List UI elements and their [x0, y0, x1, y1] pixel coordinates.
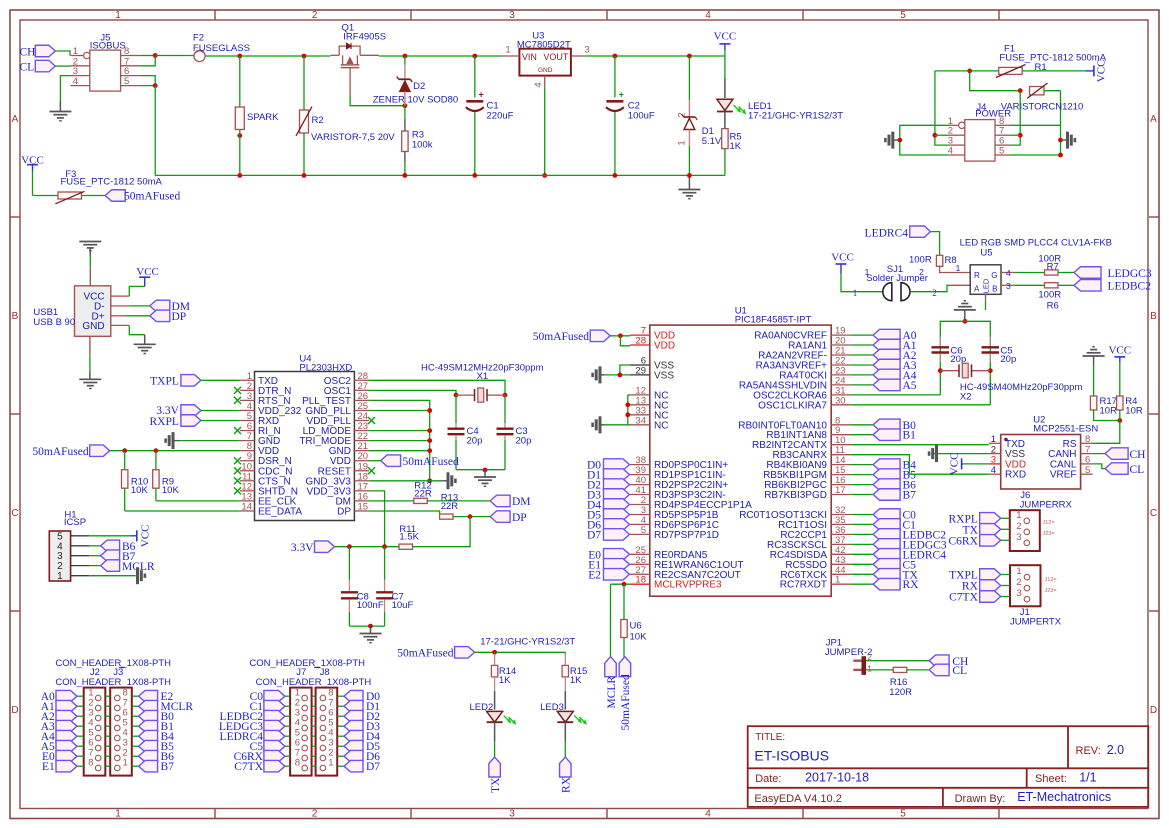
svg-text:1: 1 [956, 263, 961, 273]
svg-text:1: 1 [1016, 510, 1021, 521]
svg-text:R7: R7 [1047, 261, 1059, 272]
svg-text:1: 1 [115, 10, 121, 21]
svg-text:PL2303HXD: PL2303HXD [299, 362, 352, 373]
svg-text:JUMPERRX: JUMPERRX [1020, 500, 1073, 511]
svg-text:2: 2 [1016, 577, 1021, 588]
svg-text:1: 1 [505, 45, 510, 56]
svg-text:VDD: VDD [654, 341, 675, 352]
svg-text:GND: GND [82, 321, 104, 332]
svg-text:14: 14 [241, 501, 252, 512]
svg-text:F2: F2 [193, 32, 204, 43]
svg-text:5: 5 [999, 146, 1004, 157]
svg-text:J23=: J23= [1045, 588, 1057, 594]
svg-text:8: 8 [295, 758, 300, 769]
svg-text:10uF: 10uF [392, 600, 414, 611]
svg-text:GND: GND [538, 67, 553, 74]
svg-text:VCC: VCC [1096, 60, 1108, 83]
svg-text:100R: 100R [909, 255, 932, 266]
svg-text:J12=: J12= [1043, 520, 1055, 526]
svg-text:MCLR: MCLR [606, 676, 618, 709]
svg-text:B: B [992, 285, 997, 294]
svg-text:J23=: J23= [1043, 531, 1055, 537]
svg-text:3: 3 [1016, 532, 1021, 543]
svg-text:D: D [11, 705, 18, 716]
svg-text:VOUT: VOUT [543, 52, 569, 62]
svg-text:R: R [974, 271, 980, 280]
svg-text:30: 30 [835, 395, 846, 406]
svg-text:U5: U5 [980, 248, 992, 259]
svg-text:22R: 22R [441, 501, 459, 512]
svg-text:1: 1 [328, 758, 333, 769]
svg-text:CH: CH [1130, 449, 1146, 461]
svg-text:RX: RX [561, 776, 573, 793]
svg-text:OSC1CLKIRA7: OSC1CLKIRA7 [758, 400, 827, 411]
svg-text:Date:: Date: [755, 773, 781, 785]
svg-text:34: 34 [635, 415, 646, 426]
svg-text:4: 4 [1006, 268, 1011, 278]
svg-text:IRF4905S: IRF4905S [343, 32, 386, 43]
svg-text:D2: D2 [413, 81, 425, 92]
svg-text:SPARK: SPARK [247, 112, 279, 123]
svg-text:MCLRVPPRE3: MCLRVPPRE3 [654, 580, 722, 591]
svg-text:1K: 1K [730, 141, 742, 152]
svg-text:RX: RX [903, 579, 920, 591]
svg-text:ET-Mechatronics: ET-Mechatronics [1017, 790, 1111, 804]
svg-text:5: 5 [1085, 465, 1090, 476]
svg-text:LEDGC3: LEDGC3 [1108, 268, 1152, 280]
svg-text:28: 28 [635, 336, 646, 347]
svg-text:DP: DP [337, 506, 351, 517]
svg-text:C7TX: C7TX [949, 592, 978, 604]
svg-text:5: 5 [641, 525, 646, 536]
svg-text:RXPL: RXPL [149, 416, 178, 428]
svg-text:D: D [1150, 705, 1157, 716]
svg-text:USB B 90: USB B 90 [33, 317, 75, 328]
svg-text:LEDRC4: LEDRC4 [865, 228, 909, 240]
svg-text:50mAFused: 50mAFused [124, 191, 180, 203]
svg-text:X2: X2 [960, 392, 972, 403]
svg-text:10K: 10K [131, 485, 149, 496]
svg-text:CH: CH [20, 46, 36, 58]
svg-text:2: 2 [919, 267, 924, 277]
svg-text:17: 17 [835, 485, 846, 496]
svg-text:3.3V: 3.3V [291, 542, 314, 554]
svg-text:1: 1 [853, 288, 858, 298]
svg-text:FUSEGLASS: FUSEGLASS [193, 43, 250, 54]
svg-text:HC-49SM40MHz20pF30ppm: HC-49SM40MHz20pF30ppm [960, 382, 1083, 393]
svg-text:B: B [1150, 311, 1157, 322]
svg-text:2: 2 [1016, 521, 1021, 532]
svg-text:E2: E2 [588, 569, 601, 581]
svg-text:JUMPERTX: JUMPERTX [1010, 617, 1062, 628]
svg-text:VARISTOR-7,5 20V: VARISTOR-7,5 20V [311, 132, 395, 143]
svg-text:3: 3 [509, 10, 515, 21]
svg-text:1K: 1K [570, 675, 582, 686]
svg-text:CON_HEADER_1X08-PTH: CON_HEADER_1X08-PTH [249, 658, 365, 669]
svg-text:DM: DM [512, 496, 531, 508]
svg-text:VSS: VSS [654, 370, 674, 381]
svg-text:1/1: 1/1 [1079, 770, 1096, 784]
svg-text:REV:: REV: [1076, 745, 1101, 757]
svg-text:10K: 10K [162, 485, 180, 496]
svg-text:EasyEDA V4.10.2: EasyEDA V4.10.2 [754, 793, 841, 805]
svg-text:DP: DP [512, 512, 527, 524]
svg-text:TXPL: TXPL [150, 376, 179, 388]
svg-text:CON_HEADER_1X08-PTH: CON_HEADER_1X08-PTH [256, 677, 372, 688]
svg-text:CL: CL [20, 62, 35, 74]
svg-text:RD7PSP7P1D: RD7PSP7P1D [654, 530, 719, 541]
svg-text:NC: NC [654, 420, 668, 431]
svg-text:4: 4 [705, 809, 711, 820]
svg-text:TITLE:: TITLE: [755, 732, 785, 743]
svg-text:2: 2 [932, 288, 937, 298]
svg-text:B7: B7 [903, 490, 917, 502]
svg-text:4: 4 [991, 465, 996, 476]
svg-text:20p: 20p [467, 436, 483, 447]
svg-text:B7: B7 [161, 761, 175, 773]
svg-text:100nF: 100nF [357, 600, 384, 611]
svg-text:5: 5 [124, 76, 129, 87]
svg-text:A: A [12, 114, 19, 125]
svg-text:C6RX: C6RX [948, 535, 978, 547]
svg-text:VCC: VCC [949, 453, 961, 476]
svg-text:20p: 20p [1000, 354, 1016, 365]
svg-text:+: + [479, 90, 484, 100]
svg-text:1: 1 [1016, 566, 1021, 577]
svg-text:B: B [12, 311, 19, 322]
svg-text:D7: D7 [366, 761, 380, 773]
svg-text:RXD: RXD [1005, 470, 1026, 481]
svg-text:29: 29 [635, 365, 646, 376]
svg-text:VREF: VREF [1050, 470, 1077, 481]
svg-text:D7: D7 [587, 529, 601, 541]
svg-text:A: A [974, 285, 980, 294]
svg-text:R1: R1 [1035, 62, 1047, 73]
svg-text:DP: DP [172, 311, 187, 323]
svg-text:1: 1 [123, 758, 128, 769]
svg-text:VCC: VCC [714, 31, 737, 43]
svg-text:5: 5 [900, 10, 906, 21]
svg-text:CL: CL [952, 665, 967, 677]
svg-text:CL: CL [1130, 464, 1145, 476]
svg-text:1: 1 [676, 140, 687, 145]
svg-text:10R: 10R [1100, 405, 1118, 416]
svg-text:120R: 120R [889, 687, 912, 698]
svg-text:C7TX: C7TX [234, 761, 263, 773]
svg-text:100R: 100R [1038, 290, 1061, 301]
svg-text:J12=: J12= [1045, 577, 1057, 583]
svg-text:2: 2 [312, 809, 318, 820]
svg-text:18: 18 [635, 575, 646, 586]
svg-text:VIN: VIN [522, 52, 537, 62]
svg-text:Sheet:: Sheet: [1035, 773, 1067, 785]
svg-text:RB7KBI3PGD: RB7KBI3PGD [764, 490, 827, 501]
svg-text:Drawn By:: Drawn By: [955, 793, 1006, 805]
svg-text:ICSP: ICSP [64, 517, 86, 528]
svg-text:A5: A5 [903, 380, 917, 392]
svg-text:EE_DATA: EE_DATA [258, 506, 302, 517]
svg-text:2017-10-18: 2017-10-18 [805, 770, 869, 784]
svg-text:MCP2551-ESN: MCP2551-ESN [1033, 424, 1098, 435]
svg-text:10R: 10R [1125, 405, 1143, 416]
svg-text:FUSE_PTC-1812 500mA: FUSE_PTC-1812 500mA [999, 52, 1106, 63]
svg-text:VCC: VCC [140, 524, 152, 547]
svg-text:E1: E1 [42, 761, 55, 773]
svg-text:22R: 22R [414, 488, 432, 499]
svg-text:R2: R2 [312, 115, 324, 126]
svg-text:X1: X1 [477, 371, 489, 382]
svg-text:100uF: 100uF [628, 110, 655, 121]
svg-text:20p: 20p [516, 436, 532, 447]
svg-text:4: 4 [705, 10, 711, 21]
svg-text:3: 3 [509, 809, 515, 820]
svg-text:100k: 100k [412, 139, 433, 150]
svg-text:MC7805D2T: MC7805D2T [517, 40, 571, 51]
svg-text:C: C [11, 508, 18, 519]
svg-text:1.5K: 1.5K [399, 532, 419, 543]
svg-text:50mAFused: 50mAFused [403, 456, 459, 468]
svg-text:LED3: LED3 [540, 702, 564, 713]
svg-text:LEDBC2: LEDBC2 [1108, 281, 1152, 293]
svg-text:8: 8 [88, 758, 93, 769]
svg-text:1: 1 [835, 575, 840, 586]
svg-text:CON_HEADER_1X08-PTH: CON_HEADER_1X08-PTH [55, 677, 171, 688]
svg-text:17-21/GHC-YR1S2/3T: 17-21/GHC-YR1S2/3T [480, 637, 575, 648]
svg-text:1: 1 [57, 571, 63, 582]
svg-text:RC7RXDT: RC7RXDT [780, 580, 827, 591]
svg-text:ET-ISOBUS: ET-ISOBUS [754, 748, 829, 764]
svg-text:FUSE_PTC-1812 50mA: FUSE_PTC-1812 50mA [61, 177, 163, 188]
svg-text:50mAFused: 50mAFused [620, 674, 632, 730]
svg-text:VARISTORCN1210: VARISTORCN1210 [1001, 102, 1084, 113]
svg-text:5: 5 [900, 809, 906, 820]
svg-text:B1: B1 [903, 430, 917, 442]
svg-text:3: 3 [1016, 588, 1021, 599]
svg-text:4: 4 [73, 76, 78, 87]
svg-text:U6: U6 [630, 621, 642, 632]
svg-text:TX: TX [490, 777, 502, 793]
svg-text:LED2: LED2 [470, 702, 494, 713]
svg-text:50mAFused: 50mAFused [32, 446, 88, 458]
svg-text:G: G [991, 271, 997, 280]
svg-text:1: 1 [865, 267, 870, 277]
svg-text:ZENER 10V SOD80: ZENER 10V SOD80 [373, 94, 459, 105]
svg-text:4: 4 [533, 82, 544, 87]
svg-text:5.1V: 5.1V [702, 136, 722, 147]
svg-text:2: 2 [312, 10, 318, 21]
svg-text:2.0: 2.0 [1107, 743, 1124, 757]
svg-text:C: C [1150, 508, 1157, 519]
svg-text:50mAFused: 50mAFused [397, 648, 453, 660]
svg-text:50mAFused: 50mAFused [533, 331, 589, 343]
svg-text:A: A [1150, 114, 1157, 125]
svg-text:10K: 10K [630, 632, 648, 643]
svg-text:1: 1 [867, 663, 872, 673]
svg-text:VCC: VCC [1108, 345, 1131, 357]
svg-text:17-21/GHC-YR1S2/3T: 17-21/GHC-YR1S2/3T [748, 111, 843, 122]
svg-text:VCC: VCC [831, 251, 854, 263]
svg-text:1: 1 [115, 809, 121, 820]
svg-text:3: 3 [584, 45, 589, 56]
svg-text:1K: 1K [499, 675, 511, 686]
svg-text:220uF: 220uF [487, 110, 514, 121]
svg-text:15: 15 [358, 501, 369, 512]
svg-text:3: 3 [1006, 281, 1011, 291]
svg-text:R6: R6 [1047, 301, 1059, 312]
svg-text:VCC: VCC [136, 266, 159, 278]
svg-text:PIC18F4585T-IPT: PIC18F4585T-IPT [735, 315, 812, 326]
svg-text:LED: LED [981, 278, 990, 293]
svg-text:+: + [619, 90, 624, 100]
svg-text:ISOBUS: ISOBUS [90, 40, 126, 51]
